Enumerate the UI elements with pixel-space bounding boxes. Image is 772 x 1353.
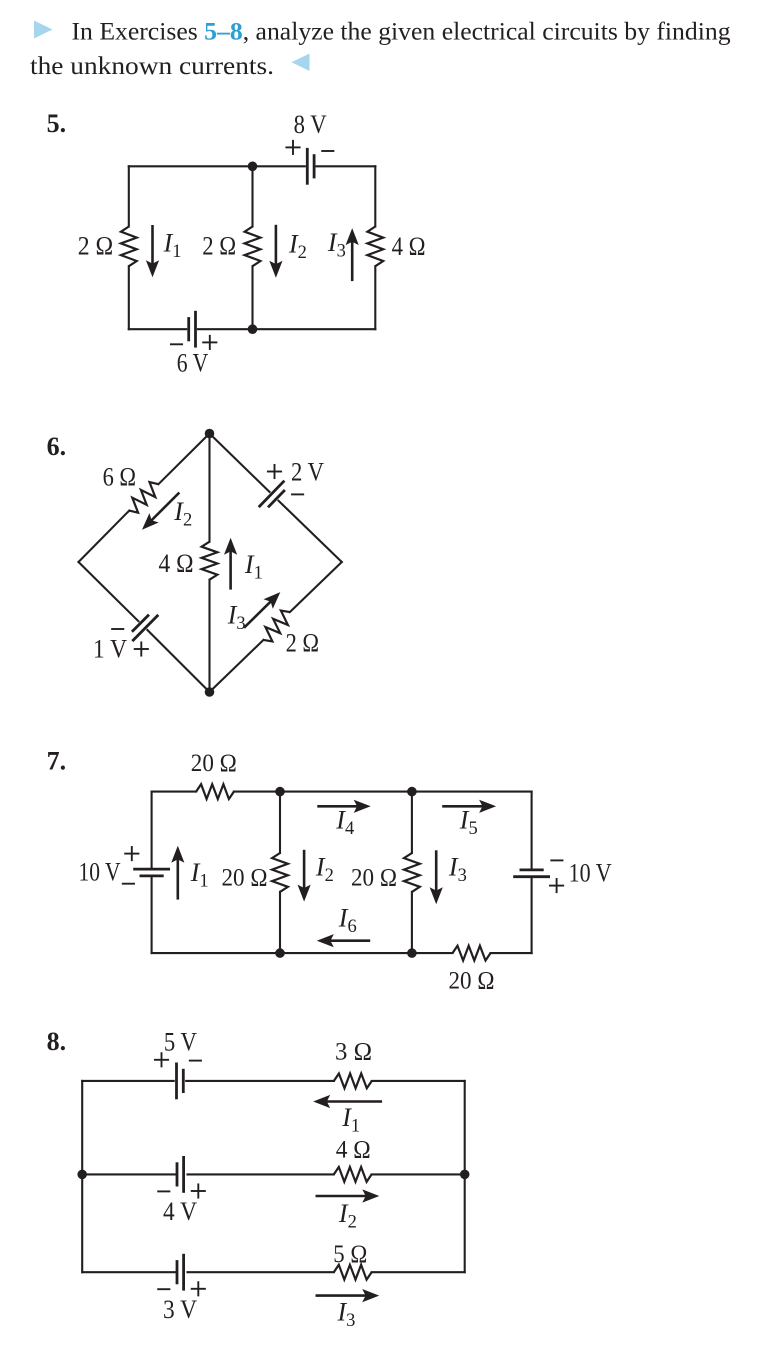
label 3 V [163, 1295, 197, 1324]
plus sign battery 2V [268, 465, 281, 478]
svg-text:20 Ω: 20 Ω [351, 865, 397, 892]
svg-text:2 Ω: 2 Ω [202, 231, 236, 260]
wire bottom right lead c7 [412, 952, 453, 954]
svg-text:I3: I3 [227, 600, 246, 634]
wire top-left edge upper [158, 434, 209, 485]
plus sign battery 10V right [550, 879, 563, 892]
svg-text:20 Ω: 20 Ω [191, 750, 237, 777]
resistor R7 20ohm top [196, 784, 234, 799]
header line 2 [30, 51, 274, 80]
svg-text:10 V: 10 V [79, 858, 121, 887]
wire top segment left lead [152, 791, 197, 793]
wire top middle segment [280, 791, 412, 793]
label 6 V [177, 348, 209, 377]
svg-text:I2: I2 [338, 1199, 357, 1233]
wire bottom-left segment from battery [198, 328, 253, 330]
svg-text:6.: 6. [47, 432, 67, 461]
wire middle row left [82, 1173, 175, 1175]
wire bottom right segment c7 [491, 952, 532, 954]
current arrow I3 up [346, 228, 359, 280]
svg-text:I2: I2 [288, 229, 307, 262]
current arrow I3 right c8 [317, 1289, 379, 1302]
wire bottom middle segment c7 [280, 952, 412, 954]
svg-text:20 Ω: 20 Ω [449, 967, 495, 994]
minus sign battery 10V left [123, 883, 134, 885]
label 2 ohm left [78, 231, 114, 260]
battery V8 4V [177, 1157, 184, 1191]
wire left side c8 [81, 1081, 83, 1272]
svg-text:4 Ω: 4 Ω [336, 1137, 371, 1164]
svg-text:8.: 8. [47, 1027, 67, 1056]
svg-text:I5: I5 [459, 806, 478, 840]
wire left branch upper [128, 166, 130, 226]
resistor R9 20ohm mid2 [404, 853, 420, 892]
svg-text:10 V: 10 V [569, 859, 612, 888]
svg-text:7.: 7. [47, 747, 67, 776]
label I1 c6 [244, 550, 263, 584]
label 10 V left [79, 858, 121, 887]
wire left branch upper c7 [151, 792, 153, 868]
wire middle row mid [188, 1173, 334, 1175]
svg-text:4 V: 4 V [163, 1197, 197, 1226]
exercise number 5. [47, 109, 67, 138]
wire middle branch1 lower [279, 892, 281, 953]
node bottom vertex [205, 687, 215, 697]
svg-text:20 Ω: 20 Ω [222, 865, 268, 892]
resistor R10 20ohm bottom [453, 946, 491, 961]
label I3 c8 [337, 1298, 356, 1332]
label I1 c8 [341, 1103, 360, 1137]
label 3 ohm [335, 1038, 372, 1065]
resistor R8 20ohm mid1 [272, 853, 288, 892]
wire bottom row right [372, 1271, 465, 1273]
svg-text:6 Ω: 6 Ω [103, 462, 137, 491]
label 6 ohm [103, 462, 137, 491]
node right middle c8 [460, 1170, 470, 1180]
wire bottom-left segment to battery [129, 328, 186, 330]
resistor R13 5ohm [334, 1265, 372, 1280]
exercise number 7. [47, 747, 67, 776]
wire bottom left segment c7 [152, 952, 280, 954]
label I2 [173, 497, 192, 531]
wire middle branch lower [251, 266, 253, 329]
label I2 [288, 229, 307, 262]
label 20 ohm mid1 [222, 865, 268, 892]
svg-text:5 V: 5 V [164, 1028, 197, 1057]
label 20 ohm mid2 [351, 865, 397, 892]
current arrow I1 left c8 [313, 1095, 381, 1108]
svg-text:8 V: 8 V [294, 110, 327, 139]
wire top-left segment [129, 165, 253, 167]
wire top right segment [412, 791, 532, 793]
wire bottom-left edge lower [147, 630, 209, 692]
current arrow I2 down-left [142, 494, 178, 530]
minus sign battery 6V [171, 343, 182, 345]
header line 1 [72, 16, 731, 45]
svg-text:I3: I3 [448, 853, 467, 887]
minus sign battery 5V [190, 1060, 201, 1062]
node junction top middle [248, 162, 258, 172]
wire left branch lower [128, 266, 130, 329]
plus sign battery 3V [192, 1282, 205, 1295]
label I2 c7 [315, 853, 334, 887]
current arrow I4 right [319, 800, 371, 813]
battery V5 10V left [135, 869, 169, 876]
label 20 ohm top [191, 750, 237, 777]
wire top-right edge upper [210, 434, 270, 492]
wire bottom row left [82, 1271, 175, 1273]
label 2 ohm diagonal [286, 629, 320, 658]
label I5 [459, 806, 478, 840]
plus sign battery 8V [286, 141, 299, 154]
label 20 ohm bottom [449, 967, 495, 994]
resistor R5 2ohm diagonal [264, 611, 290, 642]
svg-text:I6: I6 [338, 904, 357, 938]
resistor R3 4ohm right [367, 227, 383, 267]
current arrow I2 down [269, 226, 282, 278]
svg-text:In Exercises 5–8, analyze the: In Exercises 5–8, analyze the given elec… [72, 16, 731, 45]
wire bottom row mid [188, 1271, 334, 1273]
svg-text:I1: I1 [190, 858, 209, 892]
resistor R1 2ohm left [121, 227, 137, 267]
label 10 V right [569, 859, 612, 888]
label 1 V [93, 635, 127, 664]
wire bottom-right edge lower [210, 640, 264, 692]
label 4 V [163, 1197, 197, 1226]
header marker triangle right [34, 21, 53, 39]
battery V7 5V [177, 1064, 184, 1098]
current arrow I1 down [146, 226, 159, 277]
wire top-right edge lower [279, 501, 342, 562]
label 4 ohm c8 [336, 1137, 371, 1164]
svg-text:the unknown currents.: the unknown currents. [30, 51, 274, 80]
svg-text:4 Ω: 4 Ω [392, 232, 426, 261]
wire top row left [82, 1080, 174, 1082]
node junction bottom middle [248, 324, 258, 334]
wire bottom-right segment [253, 328, 376, 330]
label 2 V [291, 457, 324, 486]
node left middle c8 [77, 1170, 87, 1180]
wire top row right [372, 1080, 465, 1082]
label I3 [327, 228, 346, 261]
label I1 c7 [190, 858, 209, 892]
battery V4 1V [133, 616, 157, 641]
label I1 [163, 229, 182, 263]
plus sign battery 1V [135, 642, 148, 655]
wire right branch lower c7 [531, 878, 533, 953]
exercise number 6. [47, 432, 67, 461]
label I2 c8 [338, 1199, 357, 1233]
wire bottom-right edge upper [290, 562, 342, 612]
wire middle branch upper [251, 166, 253, 226]
svg-text:4 Ω: 4 Ω [159, 549, 194, 578]
wire bottom-left edge upper [79, 562, 139, 621]
node A top [275, 787, 285, 797]
resistor R4 6ohm [129, 482, 158, 513]
wire middle branch lower c6 [208, 580, 210, 692]
battery V2 6V [189, 312, 196, 346]
wire middle branch2 upper [411, 792, 413, 853]
current arrow I3 down c7 [430, 852, 443, 905]
resistor R6 4ohm middle [202, 542, 218, 580]
minus sign battery 2V [292, 493, 303, 495]
svg-text:I3: I3 [327, 228, 346, 261]
wire right branch upper c7 [531, 792, 533, 869]
svg-text:6 V: 6 V [177, 348, 209, 377]
minus sign battery 3V [158, 1288, 169, 1290]
current arrow I5 right [444, 800, 497, 813]
minus sign battery 8V [322, 150, 333, 152]
battery V6 10V right [515, 870, 549, 877]
plus sign battery 5V [155, 1053, 168, 1066]
current arrow I1 up c6 [224, 538, 237, 589]
svg-text:1 V: 1 V [93, 635, 127, 664]
label 5 V [164, 1028, 197, 1057]
current arrow I1 up c7 [171, 846, 184, 899]
svg-text:I4: I4 [335, 806, 354, 840]
wire top segment after resistor [234, 791, 280, 793]
minus sign battery 4V [158, 1190, 169, 1192]
plus sign battery 6V [203, 336, 216, 349]
wire right branch lower [374, 266, 376, 329]
node B top [407, 787, 417, 797]
resistor R2 2ohm middle [245, 227, 261, 267]
label I3 c7 [448, 853, 467, 887]
plus sign battery 4V [192, 1184, 205, 1197]
minus sign battery 10V right [551, 859, 562, 861]
svg-text:2 Ω: 2 Ω [78, 231, 114, 260]
battery V9 3V [177, 1255, 184, 1289]
wire middle row right [372, 1173, 465, 1175]
label 4 ohm c6 [159, 549, 194, 578]
svg-text:I2: I2 [173, 497, 192, 531]
wire top row mid [186, 1080, 334, 1082]
header end marker triangle left [292, 54, 310, 72]
label I3 c6 [227, 600, 246, 634]
label 5 ohm [333, 1241, 367, 1268]
battery V3 2V [260, 482, 284, 507]
svg-text:I2: I2 [315, 853, 334, 887]
svg-text:I3: I3 [337, 1298, 356, 1332]
label I6 [338, 904, 357, 938]
svg-text:I1: I1 [163, 229, 182, 263]
wire top-right segment to battery [253, 165, 305, 167]
current arrow I3 up-right [245, 592, 280, 627]
wire right side c8 [464, 1081, 466, 1272]
label 4 ohm right [392, 232, 426, 261]
current arrow I2 down c7 [298, 851, 311, 902]
wire left branch lower c7 [151, 878, 153, 953]
svg-text:5.: 5. [47, 109, 67, 138]
node C bottom [275, 948, 285, 958]
svg-text:3 Ω: 3 Ω [335, 1038, 372, 1065]
wire middle branch2 lower [411, 892, 413, 953]
wire right branch upper [374, 166, 376, 226]
label 8 V [294, 110, 327, 139]
label 2 ohm middle [202, 231, 236, 260]
resistor R12 4ohm [334, 1167, 372, 1182]
node D bottom [407, 948, 417, 958]
svg-text:2 Ω: 2 Ω [286, 629, 320, 658]
wire middle branch upper c6 [208, 434, 210, 542]
wire middle branch1 upper [279, 792, 281, 853]
node top vertex [205, 429, 215, 439]
current arrow I2 right c8 [317, 1189, 380, 1202]
svg-text:2 V: 2 V [291, 457, 324, 486]
svg-text:I1: I1 [244, 550, 263, 584]
svg-text:I1: I1 [341, 1103, 360, 1137]
label I4 [335, 806, 354, 840]
svg-text:5 Ω: 5 Ω [333, 1241, 367, 1268]
resistor R11 3ohm [334, 1074, 372, 1089]
battery V1 8V [307, 149, 314, 183]
current arrow I6 left [317, 934, 369, 947]
svg-text:3 V: 3 V [163, 1295, 197, 1324]
plus sign battery 10V left [125, 847, 138, 860]
wire top-right segment from battery [317, 165, 376, 167]
minus sign battery 1V [112, 628, 123, 630]
exercise number 8. [47, 1027, 67, 1056]
wire top-left edge lower [79, 511, 130, 562]
